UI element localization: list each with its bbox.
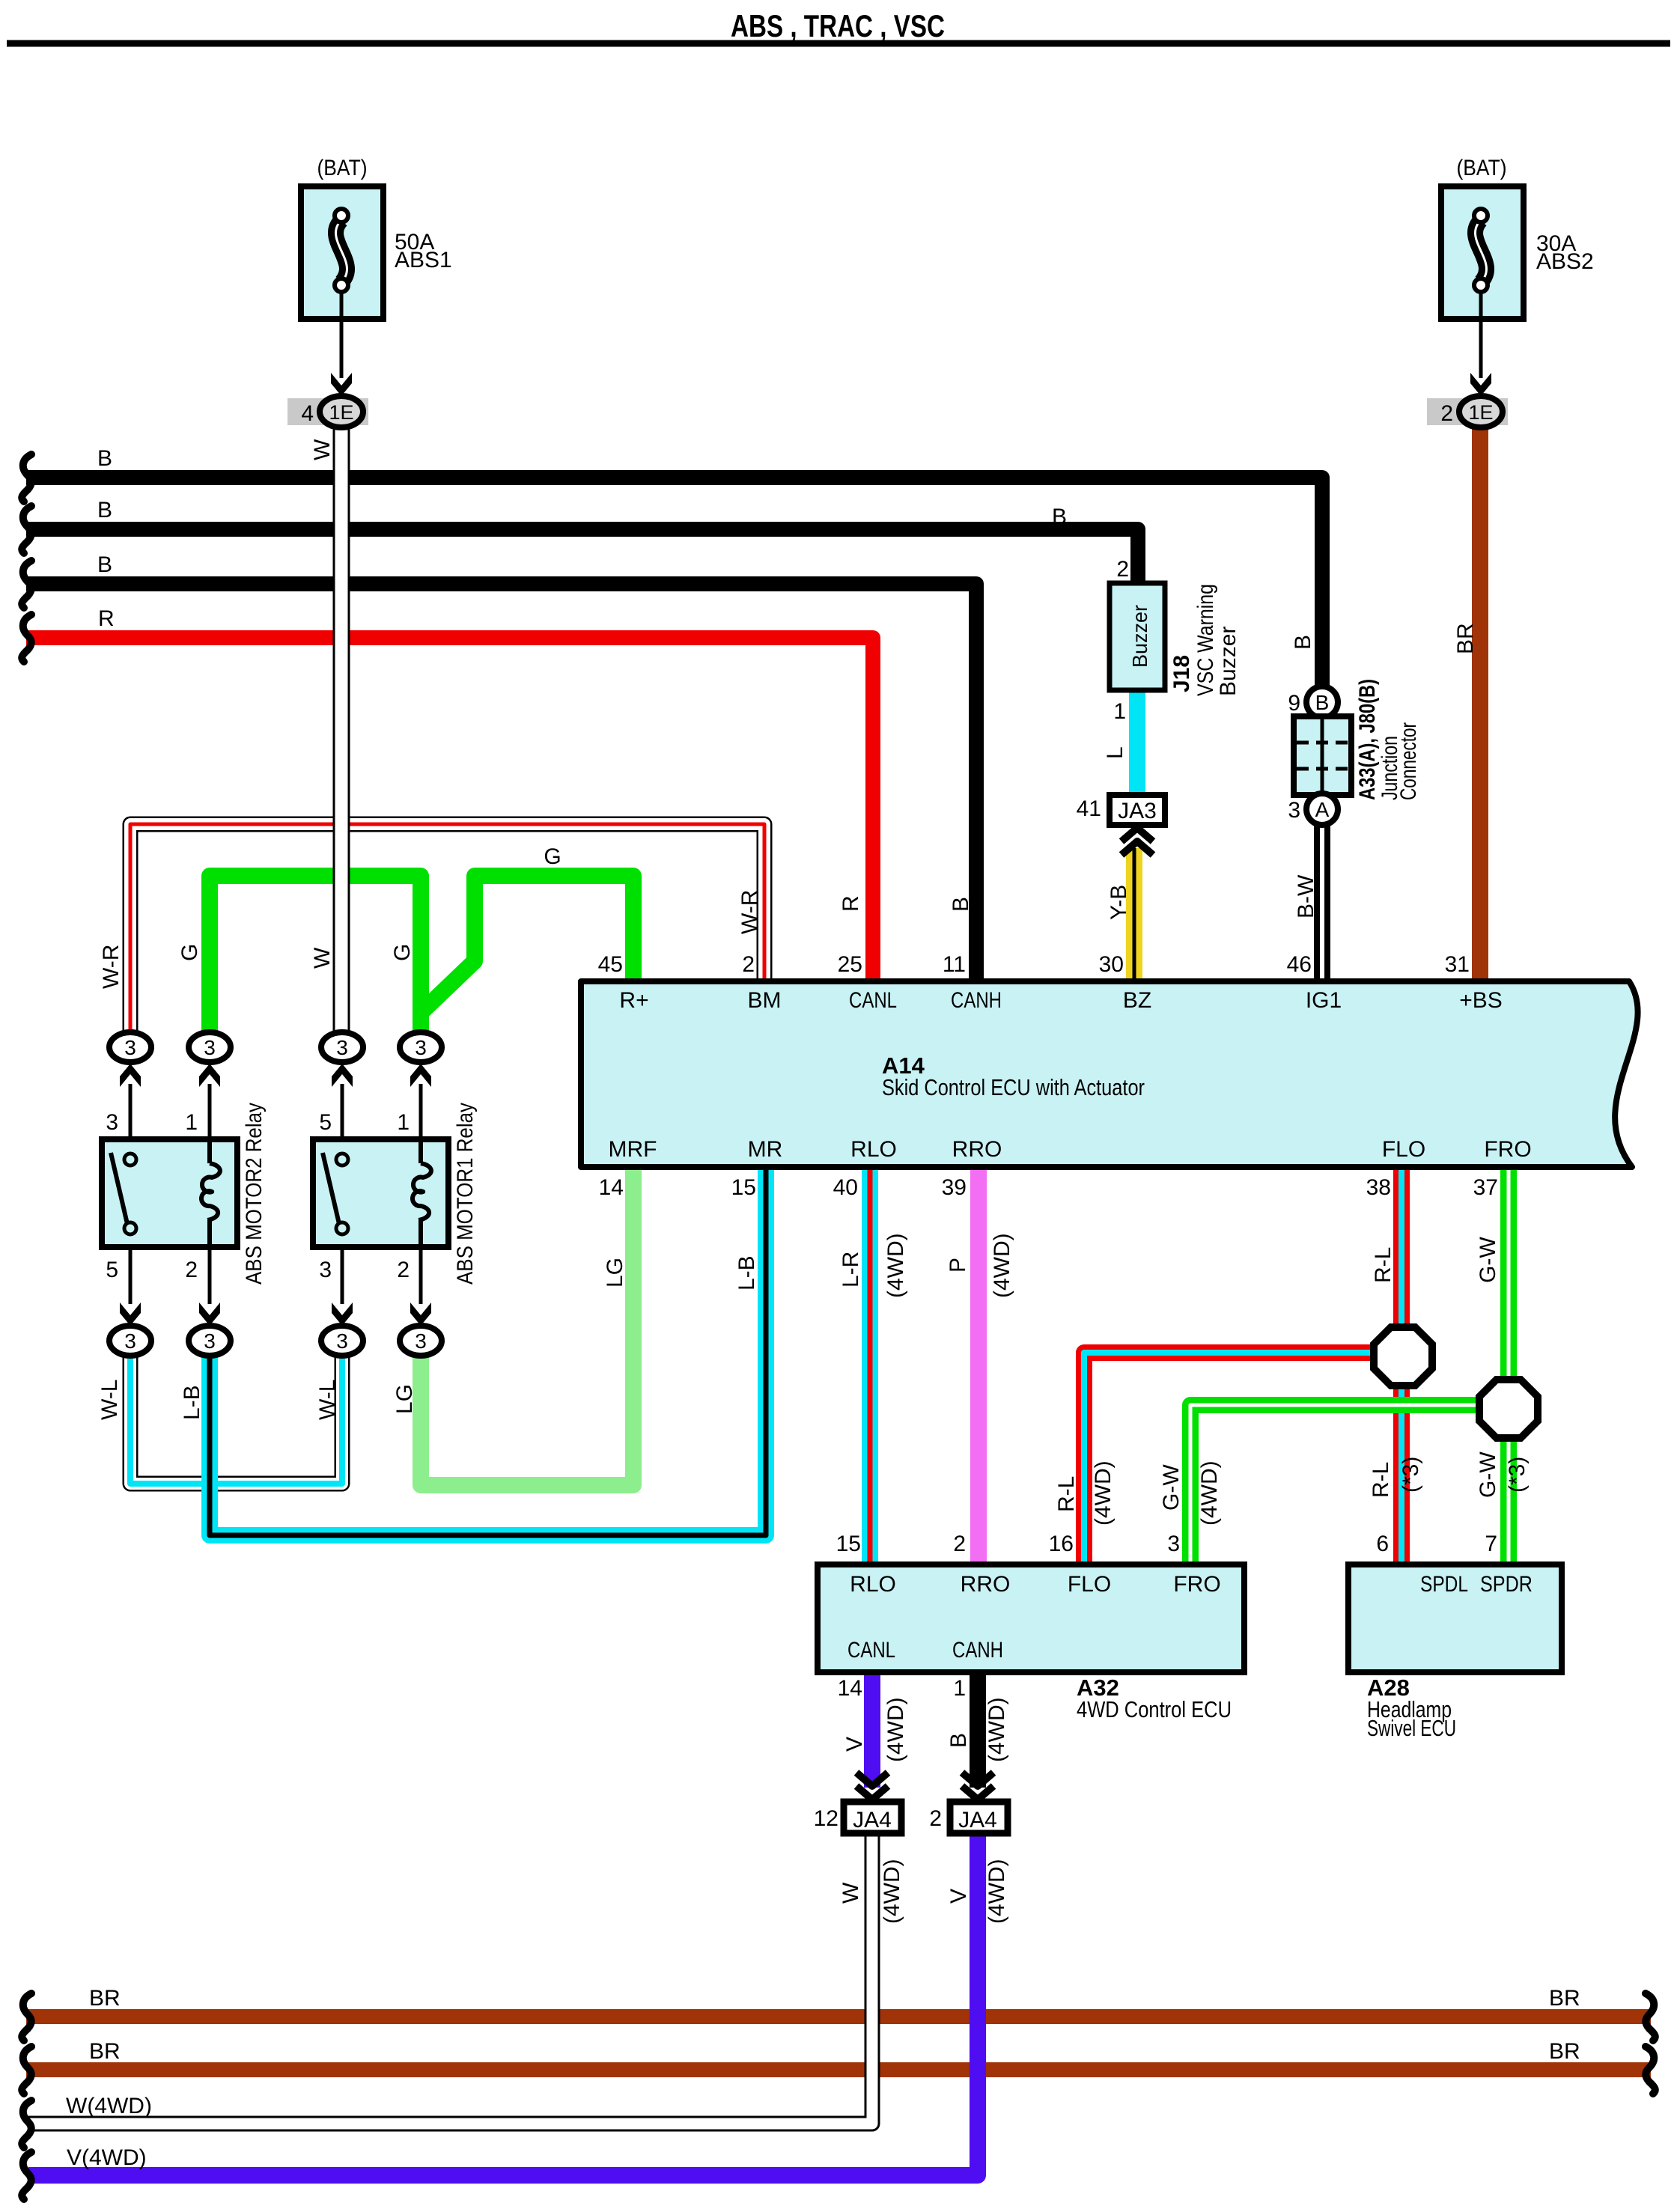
svg-text:3: 3 [204,1036,216,1059]
svg-text:BR: BR [89,1986,121,2011]
svg-text:CANH: CANH [952,1638,1003,1663]
svg-text:3: 3 [1167,1532,1180,1556]
svg-text:(4WD): (4WD) [984,1859,1009,1924]
svg-text:(4WD): (4WD) [883,1233,908,1298]
svg-text:L-R: L-R [838,1252,863,1288]
svg-text:W-R: W-R [99,945,124,989]
relay connector 3 oval (row2 x=562) [400,1326,442,1356]
svg-text:(BAT): (BAT) [1457,156,1507,180]
svg-text:JA4: JA4 [958,1808,997,1832]
svg-text:MRF: MRF [609,1137,657,1162]
svg-text:FLO: FLO [1068,1572,1111,1597]
wire B-W from junction A to IG1 pin 46 [1314,823,1330,981]
wire relay pin stub below relay (x=174) [129,1246,133,1304]
svg-text:RRO: RRO [961,1572,1011,1597]
svg-text:15: 15 [731,1175,756,1200]
break symbol BR bus 2 right [1646,2047,1655,2094]
wire B bus 1 to junction connector [26,478,1322,689]
svg-text:3: 3 [319,1258,332,1282]
svg-text:31: 31 [1445,952,1470,977]
svg-text:Buzzer: Buzzer [1216,627,1241,696]
break symbol B bus 2 [22,506,31,553]
svg-text:BR: BR [1549,1986,1580,2011]
svg-text:A: A [1315,798,1330,821]
wire fuse ABS2 to connector 1E [1479,292,1483,378]
connector 1E (right) oval [1459,396,1503,427]
connector JA4 box (left) [844,1802,901,1833]
wire relay pin stub above relay (x=457) [341,1084,344,1141]
relay ABS MOTOR1 box [313,1139,448,1247]
svg-text:3: 3 [415,1329,427,1353]
svg-text:+BS: +BS [1459,988,1503,1013]
svg-text:B: B [97,552,112,577]
arrow up into connector 3 (x=280) [199,1064,220,1087]
relay connector 3 oval (row2 x=280) [189,1326,231,1356]
svg-text:1E: 1E [329,401,353,424]
wire relay pin stub below relay (x=280) [208,1246,212,1304]
wire L buzzer to JA3 [1129,689,1145,795]
relay ABS MOTOR2 coil [201,1139,220,1247]
svg-text:(4WD): (4WD) [1091,1460,1116,1526]
relay connector 3 oval (row1 x=174) [109,1032,151,1062]
svg-text:R-L: R-L [1054,1476,1079,1512]
svg-text:38: 38 [1366,1175,1391,1200]
wire BR from connector 1E to +BS pin 31 [1472,424,1488,981]
svg-text:(*3): (*3) [1398,1457,1423,1493]
svg-text:5: 5 [319,1110,332,1135]
arrow down into connector 3 (x=174) [120,1302,141,1326]
fuse ABS2 box [1441,186,1524,319]
svg-text:JA4: JA4 [853,1808,892,1832]
wire fuse ABS1 to connector 1E [340,292,344,378]
svg-text:Swivel ECU: Swivel ECU [1367,1715,1456,1741]
wire W-L relay connectors loop [130,1354,342,1484]
svg-text:J18: J18 [1169,655,1194,692]
svg-text:4WD Control ECU: 4WD Control ECU [1077,1696,1232,1722]
svg-text:ABS2: ABS2 [1536,249,1594,274]
svg-text:B: B [97,498,112,522]
svg-text:RLO: RLO [850,1572,896,1597]
svg-text:(4WD): (4WD) [990,1233,1014,1298]
wire R-L branch to A32 FLO pin 16 [1084,1353,1378,1564]
break symbol V bus left [22,2152,31,2199]
svg-text:L-B: L-B [180,1385,204,1420]
svg-text:V(4WD): V(4WD) [67,2145,147,2170]
svg-text:CANH: CANH [951,988,1002,1013]
svg-text:G-W: G-W [1476,1237,1500,1283]
svg-text:W: W [310,947,335,969]
svg-text:R+: R+ [619,988,648,1013]
svg-text:2: 2 [1440,401,1453,426]
svg-text:3: 3 [204,1329,216,1353]
svg-text:FRO: FRO [1173,1572,1220,1597]
arrow down into connector 3 (x=280) [199,1302,220,1326]
svg-text:RRO: RRO [952,1137,1002,1162]
arrow up into connector 3 (x=174) [120,1064,141,1087]
connector JA4 box (right) [950,1802,1008,1833]
wire G-W branch to A32 FRO pin 3 [1190,1405,1484,1564]
connector 1E (left) band [287,398,368,425]
svg-text:B: B [97,446,112,471]
svg-text:RLO: RLO [850,1137,897,1162]
break symbol B bus 3 [22,561,31,608]
svg-text:39: 39 [942,1175,967,1200]
wire relay pin stub above relay (x=174) [129,1084,133,1141]
break symbol R bus [22,615,31,662]
break symbol B bus 1 [22,454,31,502]
svg-text:1: 1 [397,1110,410,1135]
wire relay pin stub below relay (x=562) [419,1246,423,1304]
svg-text:LG: LG [603,1258,627,1288]
arrow down into connector 3 (x=562) [410,1302,431,1326]
wire W from connector 1E to relay connector [333,426,350,1034]
svg-text:(4WD): (4WD) [880,1859,904,1924]
relay ABS MOTOR1 switch [323,1153,348,1234]
wire V CANL pin 14 to JA4 [864,1671,880,1788]
svg-text:VSC Warning: VSC Warning [1193,584,1218,696]
svg-text:A33(A), J80(B): A33(A), J80(B) [1355,679,1380,800]
junction connector circle A [1306,793,1338,825]
wire relay pin stub above relay (x=562) [419,1084,423,1141]
buzzer J18 box [1110,583,1165,690]
fuse ABS1 element [335,209,348,292]
svg-text:SPDR: SPDR [1480,1572,1533,1597]
relay connector 3 oval (row2 x=457) [321,1326,363,1356]
svg-text:41: 41 [1077,796,1101,821]
svg-text:7: 7 [1485,1532,1497,1556]
svg-text:R-L: R-L [1371,1247,1396,1283]
svg-text:14: 14 [838,1676,862,1701]
relay connector 3 oval (row1 x=562) [400,1032,442,1062]
svg-text:25: 25 [838,952,862,977]
svg-text:FLO: FLO [1382,1137,1425,1162]
svg-text:W: W [838,1882,863,1904]
relay ABS MOTOR2 box [102,1139,237,1247]
svg-text:1: 1 [1113,699,1126,724]
wire V(4WD) bus (bottom) to JA4 [28,1833,978,2175]
ECU A32 4WD Control box [818,1564,1244,1672]
svg-text:V: V [842,1737,867,1752]
relay connector 3 oval (row1 x=457) [321,1032,363,1062]
svg-text:15: 15 [836,1532,861,1556]
svg-text:G: G [390,944,415,961]
ECU A14 Skid Control box [581,981,1638,1167]
svg-text:2: 2 [1116,557,1129,582]
svg-text:5: 5 [106,1258,118,1282]
svg-text:16: 16 [1049,1532,1074,1556]
svg-text:2: 2 [929,1806,942,1831]
svg-text:6: 6 [1376,1532,1389,1556]
relay ABS MOTOR2 switch [111,1153,136,1234]
svg-text:3: 3 [124,1329,136,1353]
svg-text:Skid Control ECU with Actuator: Skid Control ECU with Actuator [882,1074,1145,1100]
svg-text:G: G [544,844,561,869]
svg-text:V: V [946,1889,971,1904]
junction octagon J (R-L) [1374,1327,1432,1386]
svg-text:(*3): (*3) [1505,1457,1530,1493]
svg-text:BZ: BZ [1123,988,1151,1013]
svg-text:1E: 1E [1468,401,1493,424]
svg-text:B: B [1315,691,1330,714]
wire W-R from BM pin 2 to relay connector [130,824,764,1034]
arrow up into JA3 [1121,828,1153,855]
svg-text:ABS MOTOR1 Relay: ABS MOTOR1 Relay [453,1103,478,1285]
junction octagon J (G-W) [1479,1380,1538,1438]
junction connector A33 box [1294,716,1351,795]
wire R-L FLO pin 38 to SPDL pin 6 [1393,1168,1410,1564]
svg-text:9: 9 [1288,691,1300,716]
svg-text:Buzzer: Buzzer [1128,605,1151,668]
svg-text:3: 3 [1288,798,1300,823]
break symbol BR bus 2 left [22,2047,31,2094]
svg-text:B: B [1291,635,1315,650]
svg-text:37: 37 [1473,1175,1498,1200]
svg-text:JA3: JA3 [1118,799,1157,823]
svg-text:3: 3 [106,1110,118,1135]
arrow down into JA4 (left) [856,1773,888,1800]
svg-text:12: 12 [814,1806,838,1831]
svg-text:Connector: Connector [1396,722,1421,800]
svg-text:FRO: FRO [1484,1137,1531,1162]
svg-text:B-W: B-W [1294,874,1318,918]
wire R bus to CANL pin 25 [26,638,873,981]
relay ABS MOTOR1 coil [413,1139,431,1247]
svg-text:R: R [838,895,863,912]
svg-text:2: 2 [397,1258,410,1282]
svg-text:G-W: G-W [1476,1451,1500,1498]
svg-text:G: G [177,944,202,961]
relay connector 3 oval (row2 x=174) [109,1326,151,1356]
arrow down into JA4 (right) [962,1773,993,1800]
svg-text:R-L: R-L [1369,1462,1393,1498]
arrow into connector 1E (left) [331,373,352,396]
svg-text:Y-B: Y-B [1107,885,1131,920]
junction connector circle B [1306,686,1338,718]
svg-text:BR: BR [1453,623,1478,654]
svg-text:G-W: G-W [1159,1464,1184,1511]
wire W(4WD) bus (bottom) to JA4 [28,1833,872,2124]
svg-text:CANL: CANL [849,988,897,1013]
wire relay pin stub above relay (x=280) [208,1084,212,1141]
svg-text:2: 2 [953,1532,966,1556]
connector 1E (left) oval [320,396,363,427]
svg-text:IG1: IG1 [1306,988,1342,1013]
arrow into connector 1E (right) [1470,373,1491,396]
svg-text:W: W [310,439,335,460]
svg-text:P: P [946,1258,970,1273]
wire G branch to R+ pin 45 [421,876,633,1012]
svg-text:LG: LG [392,1384,417,1414]
wire P RRO pin 39 to A32 [970,1168,987,1564]
svg-text:ABS1: ABS1 [395,248,452,272]
connector JA3 box [1110,795,1165,825]
relay connector 3 oval (row1 x=280) [189,1032,231,1062]
svg-text:(4WD): (4WD) [984,1697,1009,1762]
svg-text:3: 3 [336,1036,348,1059]
wire G-W FRO pin 37 to SPDR pin 7 [1500,1168,1517,1564]
svg-text:BR: BR [1549,2039,1580,2064]
wire Y-B from JA3 arrow to BZ pin 30 [1126,848,1142,981]
wire BR bus 2 (bottom) [26,2062,1651,2077]
svg-text:2: 2 [185,1258,198,1282]
svg-text:ABS , TRAC , VSC: ABS , TRAC , VSC [731,8,945,43]
svg-text:BR: BR [89,2039,121,2064]
svg-text:2: 2 [742,952,755,977]
wire B bus 2 to buzzer [26,529,1138,583]
svg-text:1: 1 [185,1110,198,1135]
svg-text:11: 11 [943,952,966,977]
wire LG MRF pin 14 to relay connector [421,1168,633,1485]
svg-text:L-B: L-B [734,1255,759,1291]
break symbol W bus left [22,2100,31,2148]
svg-text:45: 45 [598,952,623,977]
svg-text:40: 40 [833,1175,858,1200]
svg-text:(BAT): (BAT) [317,156,368,180]
svg-text:4: 4 [301,401,314,426]
title rule [7,40,1670,47]
wire B bus 3 to CANH pin 11 [26,584,976,981]
svg-text:SPDL: SPDL [1420,1572,1468,1597]
svg-text:R: R [98,606,115,631]
svg-text:14: 14 [599,1175,624,1200]
svg-text:3: 3 [124,1036,136,1059]
svg-text:(4WD): (4WD) [883,1697,908,1762]
svg-text:B: B [946,1733,971,1748]
svg-text:B: B [949,897,973,912]
svg-text:BM: BM [748,988,782,1013]
fuse ABS1 box [301,186,383,319]
wire G relay connectors loop [210,876,421,1034]
wire BR bus 1 (bottom) [26,2009,1651,2024]
svg-text:CANL: CANL [847,1638,895,1663]
break symbol BR bus 1 right [1646,1993,1655,2041]
svg-text:30: 30 [1099,952,1124,977]
wire L-R RLO pin 40 to A32 [862,1168,878,1564]
connector 1E (right) band [1427,398,1508,425]
ECU A28 Headlamp Swivel box [1348,1564,1562,1672]
svg-text:46: 46 [1287,952,1312,977]
svg-text:3: 3 [336,1329,348,1353]
svg-text:W-L: W-L [315,1380,340,1420]
arrow down into connector 3 (x=457) [332,1302,353,1326]
svg-text:1: 1 [953,1676,966,1701]
wire B CANH pin 1 to JA4 [970,1671,986,1788]
svg-text:3: 3 [415,1036,427,1059]
wire relay pin stub below relay (x=457) [341,1246,344,1304]
svg-text:W-R: W-R [737,890,762,934]
arrow up into connector 3 (x=457) [332,1064,353,1087]
fuse ABS2 element [1474,209,1488,292]
svg-text:W-L: W-L [97,1380,122,1420]
svg-text:L: L [1103,746,1127,759]
wire L-B MR pin 15 to relay connector [210,1168,766,1535]
break symbol BR bus 1 left [22,1993,31,2041]
svg-text:MR: MR [748,1137,783,1162]
arrow up into connector 3 (x=562) [410,1064,431,1087]
svg-text:W(4WD): W(4WD) [66,2094,152,2118]
svg-text:B: B [1052,505,1067,529]
svg-text:ABS MOTOR2 Relay: ABS MOTOR2 Relay [242,1103,267,1285]
svg-text:(4WD): (4WD) [1197,1460,1222,1526]
